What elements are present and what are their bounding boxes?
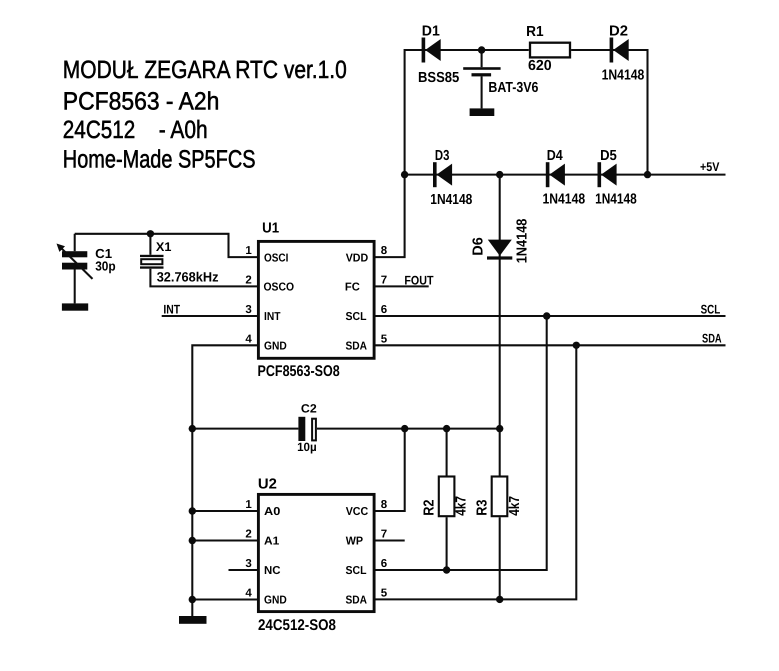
diode D4: [543, 148, 586, 207]
wire: SCL row: [376, 315, 726, 317]
svg-text:1N4148: 1N4148: [602, 67, 645, 83]
diode D5: [595, 148, 637, 207]
svg-text:SDA: SDA: [702, 332, 722, 346]
wire: SCL riser to U2: [376, 316, 547, 570]
svg-text:1: 1: [245, 245, 252, 257]
ground (battery): [470, 108, 495, 116]
resistor R1: [526, 24, 570, 74]
node: SDA row junction: [573, 342, 580, 349]
svg-text:VCC: VCC: [346, 506, 369, 518]
svg-text:NC: NC: [264, 565, 281, 577]
node: R3 bottom junction: [496, 596, 503, 603]
svg-text:SDA: SDA: [346, 595, 368, 607]
capacitor C1 (variable): [57, 234, 116, 304]
svg-text:D3: D3: [435, 148, 450, 164]
U2 pin labels: [264, 506, 368, 607]
svg-text:SCL: SCL: [346, 565, 367, 577]
svg-text:1N4148: 1N4148: [515, 219, 531, 264]
diode D3: [430, 148, 472, 208]
svg-text:D2: D2: [609, 23, 628, 39]
svg-text:30p: 30p: [95, 258, 116, 273]
wire: C1/X1 top wire to U1 pin1: [75, 234, 258, 257]
wire: A1: [192, 539, 258, 541]
svg-text:A1: A1: [264, 536, 280, 548]
svg-text:8: 8: [381, 245, 388, 257]
svg-text:R2: R2: [421, 500, 437, 516]
svg-text:Home-Made SP5FCS: Home-Made SP5FCS: [63, 146, 256, 174]
svg-text:24C512-SO8: 24C512-SO8: [258, 617, 336, 634]
svg-text:3: 3: [245, 304, 251, 316]
svg-text:PCF8563-SO8: PCF8563-SO8: [258, 363, 340, 380]
node: SCL row junction: [543, 312, 550, 319]
node: D6 tap on +5V row: [496, 171, 503, 178]
svg-text:BSS85: BSS85: [418, 70, 459, 86]
node: D2 riser bottom: [644, 171, 651, 178]
wire: INT stub: [162, 315, 258, 317]
svg-text:4: 4: [245, 333, 252, 345]
resistor R3: [474, 477, 523, 600]
wire: U1 GND to left vertical down to ground: [192, 345, 258, 616]
node: A0 junction: [189, 507, 196, 514]
svg-text:4k7: 4k7: [507, 496, 523, 516]
resistor R2: [421, 429, 469, 570]
svg-text:1N4148: 1N4148: [543, 191, 586, 207]
node: VCC riser junction: [401, 425, 408, 432]
title text block: [63, 56, 347, 173]
wire: WP stub: [376, 539, 405, 541]
svg-text:32.768kHz: 32.768kHz: [157, 270, 219, 285]
diode D2: [602, 23, 645, 83]
battery BAT-3V6: [463, 50, 538, 108]
svg-text:BAT-3V6: BAT-3V6: [488, 80, 538, 96]
op IC U1 PCF8563: [258, 221, 375, 381]
U1 pin labels: [264, 252, 369, 352]
capacitor C2: [297, 402, 317, 455]
svg-text:- A0h: - A0h: [159, 116, 208, 144]
node: X1 top tap: [147, 230, 154, 237]
wire: +5V row: [405, 174, 726, 176]
svg-text:+5V: +5V: [700, 160, 720, 174]
svg-text:WP: WP: [346, 536, 364, 548]
svg-text:VDD: VDD: [346, 252, 369, 264]
svg-text:OSCO: OSCO: [264, 282, 295, 294]
node: battery tap junction: [478, 46, 485, 53]
wire: D6 branch vertical (from +5V row down to R3): [499, 175, 501, 476]
wire: SDA row: [376, 344, 726, 346]
svg-text:MODUŁ ZEGARA RTC ver.1.0: MODUŁ ZEGARA RTC ver.1.0: [63, 56, 347, 84]
svg-text:5: 5: [381, 588, 388, 600]
wire: top row left (VDD riser up, U1 pin8 to D1/R1): [376, 50, 529, 257]
svg-text:2: 2: [245, 529, 251, 541]
ground (left rail): [179, 616, 207, 624]
ground (C1): [62, 303, 88, 310]
node: VDD riser x +5V row: [401, 171, 408, 178]
svg-text:5: 5: [381, 333, 388, 345]
svg-text:8: 8: [381, 499, 388, 511]
svg-text:A0: A0: [264, 506, 280, 518]
svg-text:10µ: 10µ: [297, 440, 317, 454]
svg-text:INT: INT: [264, 311, 281, 323]
svg-text:7: 7: [381, 529, 387, 541]
node: R2 top junction: [443, 425, 450, 432]
wire: C2 row: [192, 428, 298, 430]
node: R2 bottom junction: [443, 566, 450, 573]
wire: FC stub: [376, 285, 429, 287]
wire: NC stub: [229, 569, 259, 571]
svg-text:OSCI: OSCI: [264, 252, 288, 264]
svg-text:D1: D1: [422, 24, 440, 40]
svg-text:U1: U1: [262, 221, 279, 237]
wire: SDA riser to U2: [376, 345, 577, 599]
svg-text:PCF8563 - A2h: PCF8563 - A2h: [63, 88, 220, 116]
svg-text:2: 2: [245, 274, 251, 286]
node: GND row junction: [189, 596, 196, 603]
svg-text:3: 3: [245, 558, 251, 570]
wire: VCC riser U2: [376, 429, 405, 511]
svg-text:SCL: SCL: [701, 302, 721, 316]
svg-text:1N4148: 1N4148: [430, 192, 472, 208]
svg-text:FC: FC: [345, 282, 360, 294]
svg-text:4: 4: [245, 588, 252, 600]
svg-text:R3: R3: [474, 500, 490, 516]
svg-text:INT: INT: [163, 302, 180, 316]
svg-text:D4: D4: [547, 148, 563, 164]
svg-text:24C512: 24C512: [63, 116, 136, 144]
svg-text:GND: GND: [264, 595, 287, 607]
svg-text:FOUT: FOUT: [404, 273, 433, 287]
wire: A0: [192, 510, 258, 512]
svg-text:7: 7: [381, 274, 387, 286]
node: R3/D6 junction: [496, 425, 503, 432]
svg-text:C2: C2: [301, 402, 317, 416]
diode D6 (pointing down): [470, 219, 530, 264]
svg-text:U2: U2: [258, 477, 277, 493]
svg-text:1N4148: 1N4148: [595, 191, 637, 207]
svg-text:SDA: SDA: [346, 341, 368, 353]
svg-text:4k7: 4k7: [454, 496, 470, 516]
svg-text:620: 620: [528, 58, 552, 74]
node: C2 row left junction: [189, 425, 196, 432]
node: A1 junction: [189, 537, 196, 544]
svg-text:1: 1: [245, 499, 252, 511]
svg-text:GND: GND: [264, 341, 287, 353]
svg-text:D5: D5: [600, 148, 617, 164]
svg-text:6: 6: [381, 558, 387, 570]
svg-text:6: 6: [381, 304, 387, 316]
svg-text:D6: D6: [470, 237, 486, 256]
crystal X1: [140, 234, 258, 287]
wire: top row right (R1 to D2 to riser down to +5V row): [571, 50, 647, 175]
memory IC U2 24C512: [258, 477, 374, 635]
U1 pin numbers: [245, 245, 387, 345]
svg-text:SCL: SCL: [346, 311, 367, 323]
svg-text:R1: R1: [526, 24, 544, 40]
wire: U2 GND: [192, 598, 258, 600]
diode D1: [418, 24, 459, 86]
U2 pin numbers: [245, 499, 387, 600]
svg-text:X1: X1: [156, 240, 172, 254]
